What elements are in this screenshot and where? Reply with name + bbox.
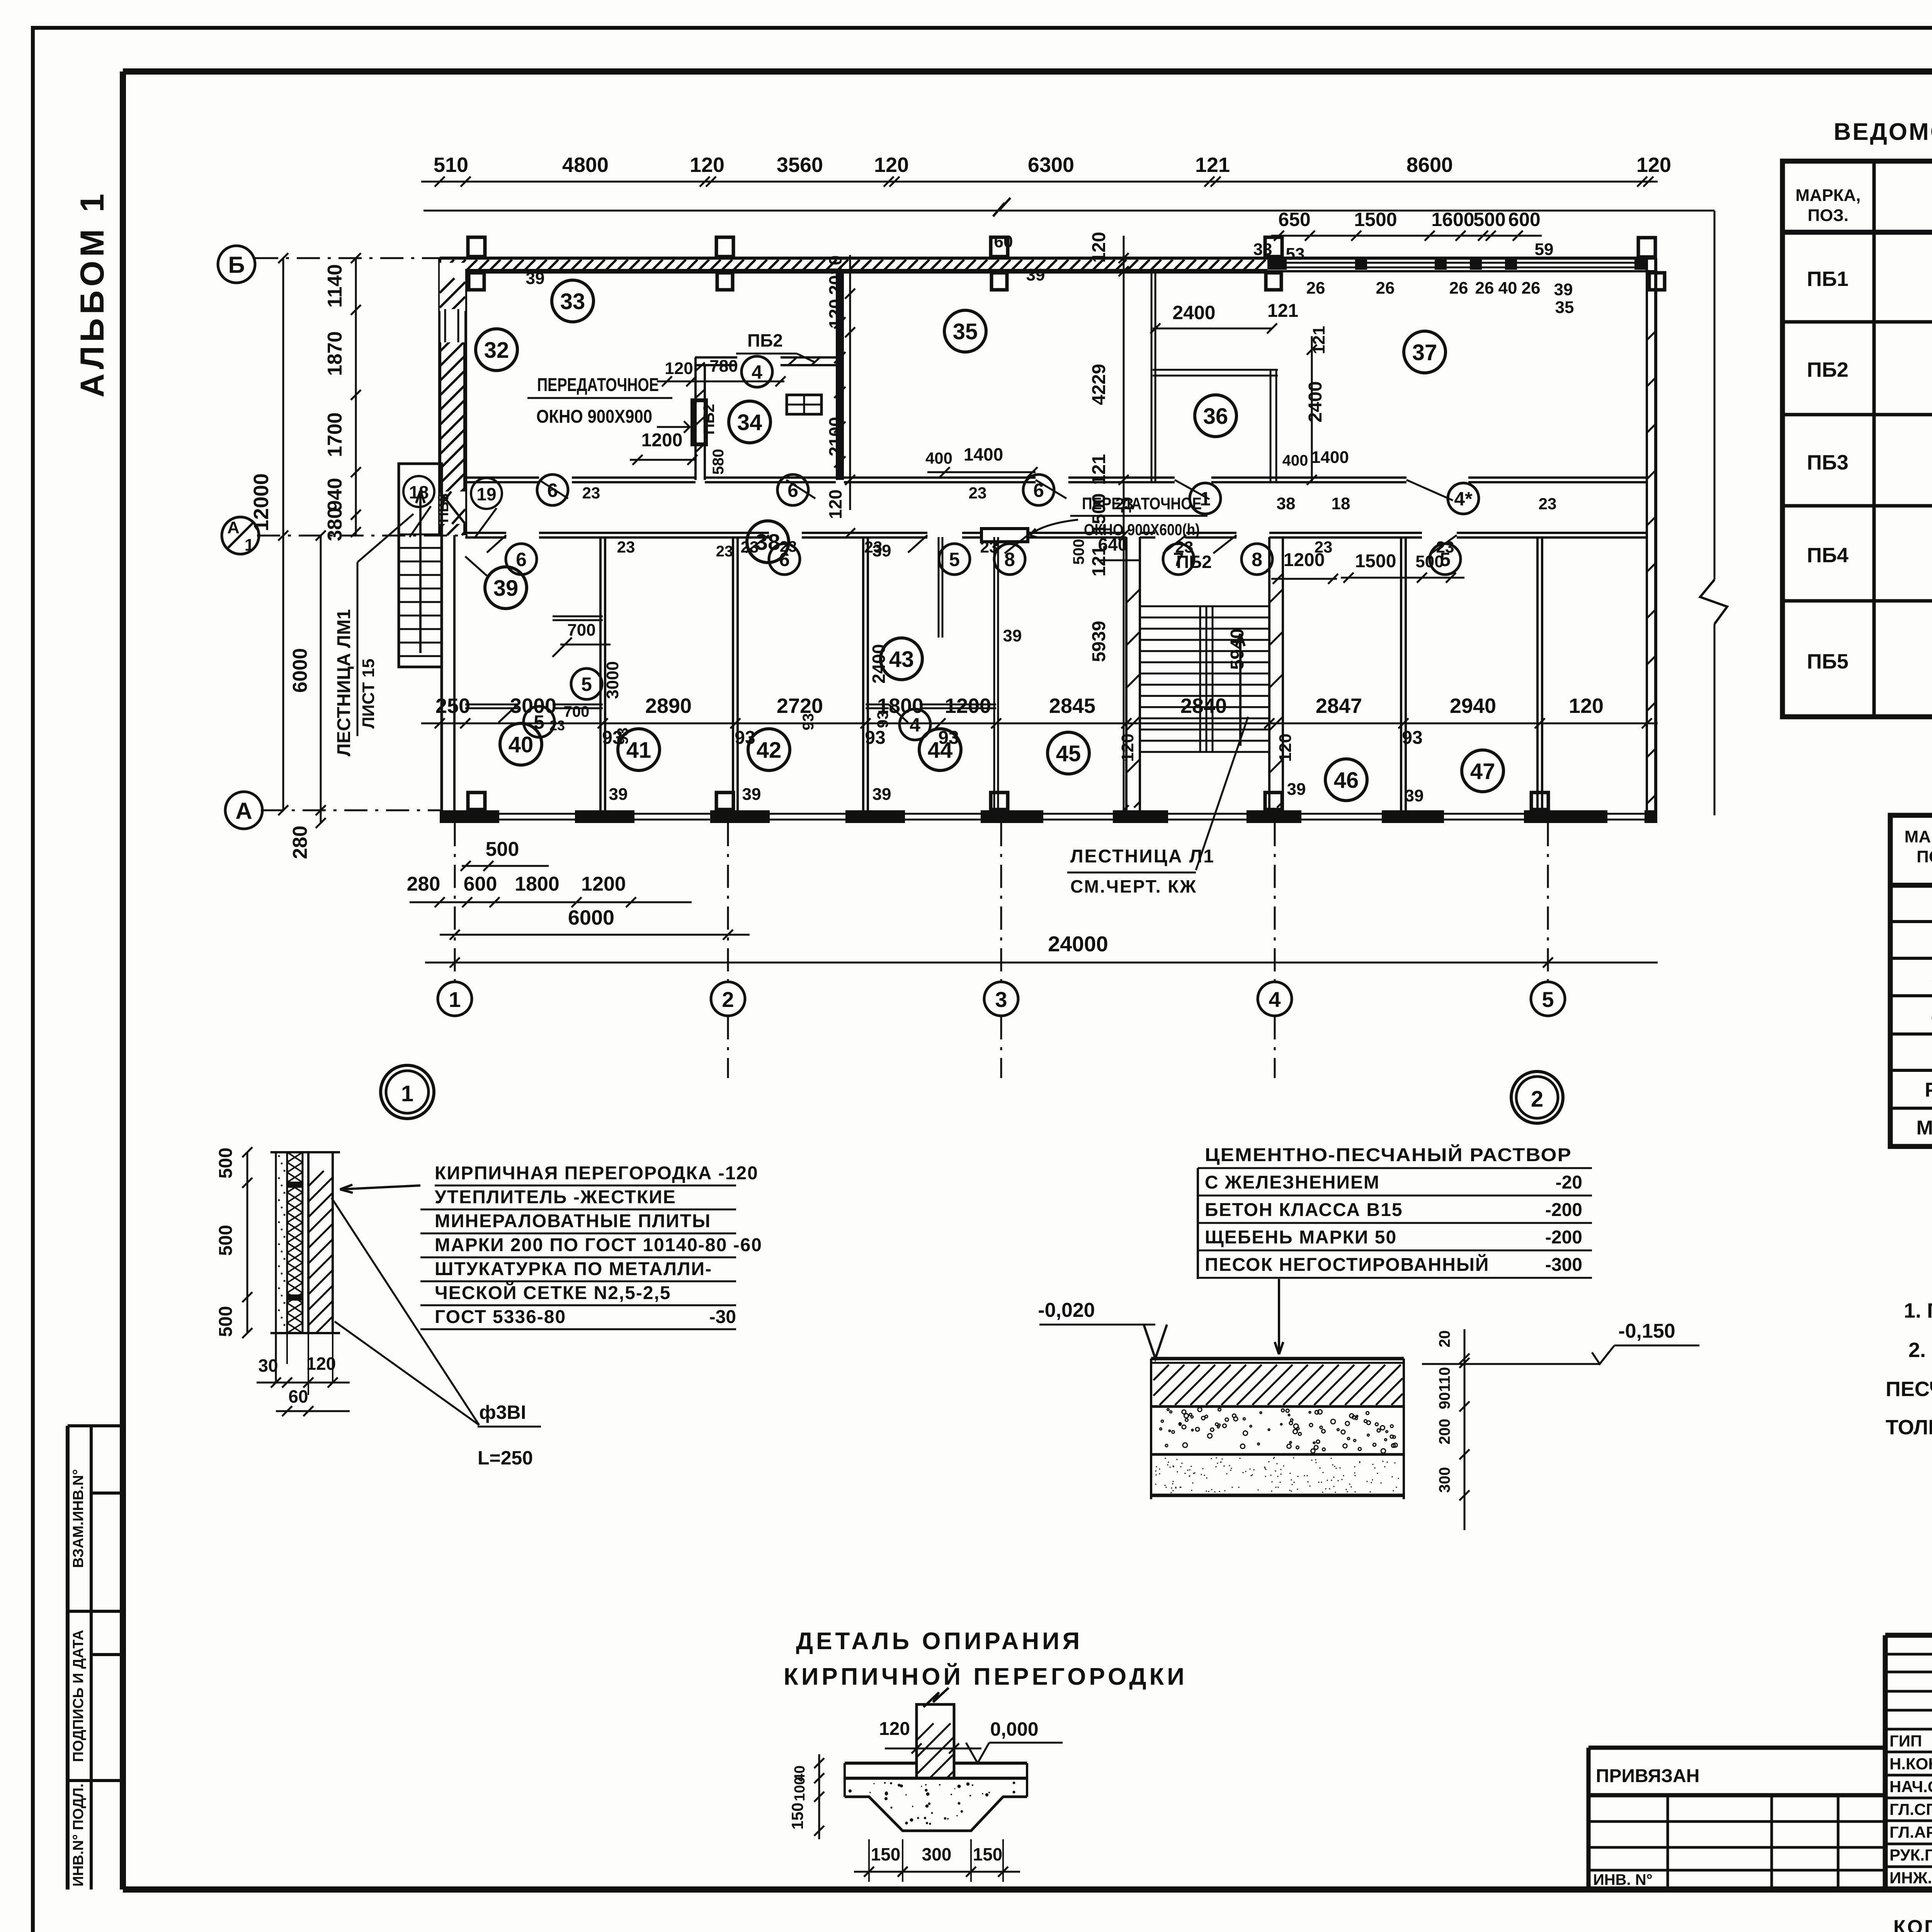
svg-text:400: 400 (925, 449, 952, 467)
svg-text:500: 500 (1473, 209, 1505, 230)
detail1 bottom dims (275, 1333, 277, 1383)
svg-text:БЕТОН КЛАССА В15: БЕТОН КЛАССА В15 (1205, 1200, 1403, 1220)
svg-text:С ЖЕЛЕЗНЕНИЕМ: С ЖЕЛЕЗНЕНИЕМ (1205, 1172, 1380, 1193)
svg-text:33: 33 (560, 289, 585, 314)
axis circle A (225, 792, 262, 829)
left exterior wall 510 (438, 258, 441, 535)
detail2 leader arrow (1278, 1279, 1280, 1354)
privyazan table (1588, 1746, 1885, 1750)
svg-text:18: 18 (1332, 494, 1350, 513)
svg-text:940: 940 (324, 478, 346, 512)
left wall window opening (440, 309, 464, 342)
svg-text:39: 39 (1405, 786, 1424, 805)
bottom dim chain 280-600-1800-1200 (410, 901, 692, 903)
svg-text:280: 280 (407, 873, 440, 895)
svg-text:35: 35 (953, 319, 978, 344)
svg-text:ВЗАМ.ИНВ.N°: ВЗАМ.ИНВ.N° (70, 1469, 87, 1568)
margin stamp strip (66, 1426, 70, 1889)
detail3 floor slab (845, 1762, 917, 1765)
svg-text:Н.КОНТР.: Н.КОНТР. (1889, 1755, 1932, 1773)
svg-text:ОКНО 900Х900: ОКНО 900Х900 (536, 406, 652, 427)
svg-text:ЩЕБЕНЬ МАРКИ 50: ЩЕБЕНЬ МАРКИ 50 (1205, 1227, 1397, 1248)
svg-text:42: 42 (757, 738, 782, 763)
svg-text:26: 26 (1522, 279, 1541, 298)
svg-text:300: 300 (922, 1844, 952, 1864)
svg-text:780: 780 (709, 357, 738, 376)
svg-text:23: 23 (582, 484, 600, 502)
axis grid dash-dot lines (454, 823, 456, 983)
staircase LM1 outside left (399, 464, 442, 667)
svg-text:120: 120 (825, 299, 845, 329)
room36 inner walls (1153, 369, 1278, 371)
svg-text:60: 60 (994, 232, 1013, 251)
thick partition between rooms 34 and 35 (836, 271, 844, 480)
svg-text:ПЕРЕДАТОЧНОЕ: ПЕРЕДАТОЧНОЕ (537, 375, 659, 395)
svg-text:33: 33 (1253, 240, 1272, 259)
svg-text:2400: 2400 (869, 644, 889, 684)
svg-text:150: 150 (973, 1844, 1003, 1864)
svg-text:ПБ5: ПБ5 (1807, 650, 1849, 673)
svg-text:ИНВ. N°: ИНВ. N° (1593, 1871, 1653, 1888)
svg-text:МАРКИ 200 ПО ГОСТ 10140-80 -: МАРКИ 200 ПО ГОСТ 10140-80 -60 (435, 1235, 762, 1255)
left vertical dimension chains (282, 258, 284, 810)
svg-text:23: 23 (1539, 495, 1557, 513)
svg-text:500: 500 (1070, 539, 1087, 565)
svg-text:120: 120 (665, 359, 693, 378)
partition wall section layers (275, 1152, 277, 1333)
svg-text:1: 1 (245, 536, 254, 554)
svg-text:120: 120 (1089, 232, 1109, 263)
top extension line (423, 210, 1714, 212)
svg-text:1200: 1200 (641, 430, 683, 451)
svg-text:120: 120 (690, 153, 724, 177)
svg-text:39: 39 (1026, 265, 1045, 284)
svg-text:3: 3 (995, 987, 1007, 1012)
door swings (539, 480, 568, 498)
svg-text:20: 20 (1436, 1330, 1453, 1348)
bottom dim 500 (462, 865, 549, 867)
svg-text:6: 6 (516, 549, 527, 570)
svg-text:МАРКА,: МАРКА, (1796, 186, 1861, 205)
svg-text:2890: 2890 (645, 694, 692, 718)
svg-text:36: 36 (1203, 404, 1228, 429)
svg-text:38: 38 (1277, 494, 1296, 513)
svg-text:6000: 6000 (289, 648, 311, 693)
svg-text:280: 280 (289, 826, 311, 859)
svg-text:ГОСТ 5336-80: ГОСТ 5336-80 (435, 1307, 566, 1327)
svg-text:-30: -30 (709, 1307, 736, 1327)
svg-text:ПБ8: ПБ8 (435, 493, 452, 523)
svg-text:1: 1 (401, 1081, 413, 1106)
svg-text:0,000: 0,000 (990, 1718, 1038, 1740)
drawing frame (123, 68, 1932, 75)
svg-text:ПБ1: ПБ1 (1807, 267, 1849, 291)
svg-text:2400: 2400 (1305, 381, 1326, 423)
svg-text:2100: 2100 (825, 417, 845, 456)
svg-text:120: 120 (306, 1354, 336, 1374)
svg-text:38: 38 (755, 530, 781, 555)
top exterior wall at axis B (440, 257, 1656, 260)
svg-text:400: 400 (1282, 452, 1308, 469)
svg-text:2: 2 (722, 987, 734, 1012)
svg-text:4: 4 (752, 361, 762, 383)
svg-text:1200: 1200 (581, 873, 626, 895)
svg-text:53: 53 (1286, 245, 1305, 264)
svg-text:37: 37 (1412, 340, 1437, 365)
svg-text:ГИП: ГИП (1889, 1732, 1922, 1750)
svg-text:КИРПИЧНОЙ ПЕРЕГОРОДКИ: КИРПИЧНОЙ ПЕРЕГОРОДКИ (784, 1663, 1187, 1690)
svg-text:700: 700 (564, 703, 590, 720)
detail circle 1 (381, 1065, 434, 1119)
svg-text:ШТУКАТУРКА ПО МЕТАЛЛИ-: ШТУКАТУРКА ПО МЕТАЛЛИ- (435, 1259, 712, 1279)
svg-text:5939: 5939 (1089, 621, 1109, 662)
svg-text:ГЛ.СПЕЦ.: ГЛ.СПЕЦ. (1889, 1800, 1932, 1818)
svg-text:ПОДПИСЬ И ДАТА: ПОДПИСЬ И ДАТА (70, 1630, 87, 1762)
svg-text:600: 600 (464, 873, 497, 895)
svg-text:ПЕСОК НЕГОСТИРОВАННЫЙ: ПЕСОК НЕГОСТИРОВАННЫЙ (1205, 1254, 1489, 1275)
svg-text:1: 1 (449, 987, 461, 1012)
svg-text:120: 120 (1118, 733, 1137, 762)
top wall pilaster right (1638, 238, 1655, 257)
svg-text:2940: 2940 (1450, 694, 1496, 718)
svg-text:ЧЕСКОЙ СЕТКЕ N2,5-2,5: ЧЕСКОЙ СЕТКЕ N2,5-2,5 (435, 1282, 671, 1303)
detail3 left dims (818, 1754, 820, 1839)
corridor upper partition wall (465, 476, 539, 479)
room36 left wall (1151, 271, 1153, 482)
svg-text:39: 39 (609, 785, 628, 804)
svg-text:2400: 2400 (1172, 302, 1215, 323)
svg-text:ПЕСЧАНЫМ РАСТВОРОМ ПО МЕТАЛ: ПЕСЧАНЫМ РАСТВОРОМ ПО МЕТАЛЛИЧЕСКОЙ СЕТК… (1886, 1377, 1932, 1401)
svg-text:580: 580 (710, 449, 727, 475)
svg-text:2010: 2010 (825, 255, 845, 295)
concrete dots layer (1232, 1414, 1236, 1417)
svg-text:КОПИРОВАЛ БАБИНА: КОПИРОВАЛ БАБИНА (1893, 1916, 1932, 1932)
svg-text:23: 23 (780, 538, 797, 555)
svg-text:ПБ2: ПБ2 (1176, 552, 1212, 572)
svg-text:ПБ4: ПБ4 (1807, 544, 1849, 567)
svg-text:2845: 2845 (1049, 694, 1095, 718)
svg-text:30: 30 (258, 1355, 278, 1376)
svg-text:26: 26 (1475, 279, 1494, 298)
top-right window dimension chain (1271, 235, 1542, 237)
svg-text:1200: 1200 (1284, 550, 1325, 570)
svg-text:35: 35 (1555, 298, 1574, 317)
svg-text:-300: -300 (1545, 1255, 1582, 1275)
right exterior wall (1646, 258, 1648, 823)
svg-text:ПБ2: ПБ2 (701, 404, 718, 435)
svg-text:ПБ2: ПБ2 (1807, 358, 1849, 381)
room number circles (476, 329, 517, 371)
svg-text:8: 8 (1004, 549, 1015, 570)
svg-text:121: 121 (1089, 454, 1109, 485)
svg-text:500: 500 (216, 1225, 236, 1256)
svg-text:1. ПЕРЕДАТОЧНЫЕ ОКНА 900Х600: 1. ПЕРЕДАТОЧНЫЕ ОКНА 900Х600 И 900Х900 В… (1904, 1299, 1932, 1322)
svg-text:ПРИВЯЗАН: ПРИВЯЗАН (1596, 1766, 1699, 1786)
svg-text:500: 500 (216, 1148, 236, 1179)
svg-text:ЛИСТ 15: ЛИСТ 15 (359, 658, 378, 728)
svg-text:650: 650 (1278, 209, 1310, 230)
ventilation shaft symbol room34 (787, 395, 821, 414)
svg-text:380: 380 (324, 508, 346, 541)
svg-text:93: 93 (800, 713, 817, 731)
svg-text:600: 600 (1508, 209, 1540, 230)
svg-text:1400: 1400 (1311, 448, 1349, 467)
top dimension chain (421, 181, 1658, 183)
svg-text:4: 4 (910, 714, 920, 736)
svg-text:ф3ВI: ф3ВI (479, 1401, 526, 1423)
svg-text:ЦЕМЕНТНО-ПЕСЧАНЫЙ РАСТВОР: ЦЕМЕНТНО-ПЕСЧАНЫЙ РАСТВОР (1205, 1144, 1572, 1165)
svg-text:500: 500 (1415, 552, 1444, 571)
detail3 foundation trapezoid (845, 1797, 1027, 1831)
circles 18 19 (403, 476, 434, 507)
svg-text:250: 250 (435, 694, 470, 718)
left wall lower thin part (440, 535, 443, 810)
svg-text:4*: 4* (1454, 488, 1473, 510)
svg-text:1500: 1500 (1355, 551, 1396, 571)
svg-text:1800: 1800 (515, 873, 560, 895)
svg-text:93: 93 (874, 711, 891, 728)
door number circles (742, 356, 772, 387)
bottom dim 24000 (425, 962, 1658, 964)
svg-text:43: 43 (889, 647, 914, 672)
svg-text:6: 6 (547, 480, 558, 501)
svg-text:МАРКА,: МАРКА, (1905, 827, 1932, 846)
svg-text:L=250: L=250 (478, 1447, 533, 1469)
svg-text:ПБ2: ПБ2 (747, 330, 783, 350)
svg-text:120: 120 (874, 153, 909, 177)
svg-text:КИРПИЧНАЯ ПЕРЕГОРОДКА -120: КИРПИЧНАЯ ПЕРЕГОРОДКА -120 (435, 1163, 759, 1184)
svg-text:5: 5 (581, 673, 592, 695)
staircase L1 treads (1140, 605, 1269, 607)
svg-text:39: 39 (872, 541, 891, 560)
svg-text:34: 34 (737, 410, 762, 435)
svg-text:640: 640 (1098, 534, 1128, 554)
svg-text:1140: 1140 (324, 264, 346, 308)
svg-text:23: 23 (980, 538, 998, 556)
svg-text:39: 39 (1554, 280, 1573, 299)
svg-text:А: А (235, 798, 252, 824)
svg-text:120: 120 (825, 490, 845, 519)
partition room44/45 partial (993, 537, 995, 810)
svg-text:3560: 3560 (777, 153, 823, 177)
svg-text:24000: 24000 (1048, 932, 1108, 956)
svg-text:26: 26 (1376, 279, 1395, 298)
svg-text:39: 39 (742, 785, 761, 804)
axis circle B (218, 246, 255, 283)
detail1 left dims 500x3 (247, 1152, 248, 1333)
svg-text:УТЕПЛИТЕЛЬ -ЖЕСТКИЕ: УТЕПЛИТЕЛЬ -ЖЕСТКИЕ (435, 1187, 676, 1207)
svg-text:НАЧ.ОТД.: НАЧ.ОТД. (1889, 1777, 1932, 1796)
svg-text:1200: 1200 (945, 694, 991, 718)
partition room33/34 horizontal (695, 356, 737, 359)
svg-text:ГЛ.АРХ.: ГЛ.АРХ. (1889, 1823, 1932, 1841)
corridor lower partition wall (465, 532, 506, 534)
detail1 phi3BI leader (332, 1198, 479, 1425)
svg-text:2: 2 (1531, 1087, 1543, 1112)
svg-text:23: 23 (969, 484, 987, 502)
svg-text:2847: 2847 (1316, 694, 1362, 718)
svg-text:121: 121 (1195, 153, 1230, 177)
svg-text:ПБ3: ПБ3 (1807, 451, 1849, 474)
svg-text:700: 700 (567, 621, 595, 639)
room36 dims (1153, 328, 1272, 330)
svg-text:121: 121 (1267, 301, 1298, 321)
svg-text:-200: -200 (1545, 1200, 1582, 1220)
svg-text:19: 19 (476, 484, 496, 504)
svg-text:-200: -200 (1545, 1227, 1582, 1248)
svg-text:26: 26 (1306, 279, 1325, 298)
svg-text:4800: 4800 (562, 153, 609, 177)
svg-text:110: 110 (1436, 1367, 1453, 1392)
svg-text:ПОЗ.: ПОЗ. (1808, 206, 1849, 225)
right margin extension line with break (1714, 211, 1716, 580)
svg-text:5: 5 (1542, 987, 1554, 1012)
svg-text:46: 46 (1334, 768, 1359, 793)
svg-text:8: 8 (1252, 549, 1262, 570)
svg-text:ИНВ.N° ПОДЛ.: ИНВ.N° ПОДЛ. (70, 1784, 87, 1887)
title block staff table (1883, 1635, 1888, 1889)
svg-text:-0,020: -0,020 (1038, 1299, 1095, 1321)
svg-text:Р1: Р1 (1925, 1079, 1932, 1101)
bottom wall pilasters (468, 793, 485, 810)
PB8 lintel block (440, 492, 465, 524)
svg-text:МР1: МР1 (1917, 1117, 1932, 1139)
svg-text:А: А (227, 518, 240, 537)
stairwell walls (1126, 537, 1140, 810)
svg-text:4: 4 (1269, 987, 1281, 1012)
svg-text:93: 93 (1402, 728, 1422, 748)
svg-text:6: 6 (1033, 480, 1044, 501)
svg-text:ИНЖ.: ИНЖ. (1889, 1869, 1932, 1887)
room43 inner wall (866, 704, 889, 706)
svg-text:39: 39 (1287, 780, 1306, 799)
svg-text:500: 500 (486, 838, 519, 861)
floor slab layers (1151, 1357, 1404, 1361)
svg-text:5940: 5940 (1227, 629, 1248, 670)
transfer window 900x900 box (692, 400, 706, 444)
svg-text:39: 39 (526, 269, 545, 288)
svg-text:1600: 1600 (1431, 209, 1474, 230)
svg-text:150: 150 (788, 1803, 806, 1830)
partition room33/34 vertical (694, 357, 697, 480)
svg-text:23: 23 (741, 538, 759, 556)
bottom axis circles 1-5 (438, 982, 472, 1016)
svg-text:ВЕДОМОСТЬ ПЕРЕМЫЧЕК: ВЕДОМОСТЬ ПЕРЕМЫЧЕК (1833, 119, 1932, 145)
svg-text:1700: 1700 (324, 412, 346, 457)
svg-text:39: 39 (493, 576, 519, 601)
svg-text:39: 39 (1003, 626, 1022, 645)
svg-text:93: 93 (614, 728, 631, 745)
detail circle 2 (1511, 1071, 1563, 1123)
svg-text:90: 90 (1436, 1392, 1453, 1410)
svg-text:ЛЕСТНИЦА ЛМ1: ЛЕСТНИЦА ЛМ1 (334, 609, 354, 756)
svg-text:1500: 1500 (1354, 209, 1397, 230)
room width dimension row (421, 723, 1658, 724)
staircase L1 up arrow (1239, 634, 1242, 746)
svg-text:СМ.ЧЕРТ. КЖ: СМ.ЧЕРТ. КЖ (1070, 876, 1197, 896)
svg-text:300: 300 (1436, 1467, 1453, 1493)
detail3 brick partition hatched (917, 1704, 954, 1778)
svg-text:200: 200 (1436, 1419, 1453, 1445)
svg-text:39: 39 (872, 785, 891, 804)
axis circle A/1 (222, 517, 259, 554)
svg-text:МИНЕРАЛОВАТНЫЕ ПЛИТЫ: МИНЕРАЛОВАТНЫЕ ПЛИТЫ (435, 1211, 711, 1231)
svg-text:ДЕТАЛЬ ОПИРАНИЯ: ДЕТАЛЬ ОПИРАНИЯ (796, 1628, 1083, 1655)
svg-text:ПОЗ.: ПОЗ. (1917, 847, 1932, 866)
svg-text:ТОЛЩИНОЙ 30ММ.: ТОЛЩИНОЙ 30ММ. (1886, 1415, 1932, 1439)
bottom exterior wall at axis A with windows (440, 810, 1656, 823)
svg-text:1400: 1400 (964, 444, 1003, 464)
top wall pilasters (468, 237, 485, 257)
svg-text:40: 40 (1498, 279, 1517, 298)
svg-text:РУК.ГР.: РУК.ГР. (1889, 1846, 1932, 1864)
svg-text:32: 32 (484, 338, 509, 363)
svg-text:45: 45 (1056, 741, 1081, 766)
svg-text:120: 120 (1276, 733, 1295, 762)
svg-text:6: 6 (787, 480, 798, 501)
svg-text:60: 60 (288, 1386, 308, 1406)
svg-text:3000: 3000 (510, 694, 556, 718)
svg-text:5: 5 (534, 711, 544, 733)
svg-text:26: 26 (1449, 279, 1468, 298)
svg-text:ЛЕСТНИЦА Л1: ЛЕСТНИЦА Л1 (1070, 846, 1215, 867)
svg-text:5: 5 (949, 549, 960, 570)
svg-text:2. МЕТАЛЛИЧЕСКИЕ БАЛКИ ПЕРЕК: 2. МЕТАЛЛИЧЕСКИЕ БАЛКИ ПЕРЕКРЫТИЯ ОШТУКА… (1908, 1338, 1932, 1362)
svg-text:2840: 2840 (1180, 694, 1227, 718)
detail3 bottom dims (854, 1871, 1020, 1873)
svg-text:-0,150: -0,150 (1618, 1320, 1675, 1342)
bottom dim 6000 (440, 934, 750, 936)
svg-text:120: 120 (879, 1719, 910, 1739)
svg-text:1870: 1870 (324, 331, 346, 376)
svg-text:100: 100 (792, 1777, 808, 1801)
svg-text:-20: -20 (1556, 1172, 1582, 1193)
svg-text:120: 120 (1569, 694, 1604, 718)
svg-text:4229: 4229 (1089, 364, 1109, 405)
svg-text:Б: Б (228, 252, 245, 278)
svg-text:6000: 6000 (568, 906, 614, 929)
svg-text:510: 510 (434, 153, 468, 177)
svg-text:120: 120 (1636, 153, 1671, 177)
svg-text:40: 40 (509, 732, 534, 757)
lower band partitions (599, 537, 602, 810)
svg-text:23: 23 (716, 543, 733, 560)
svg-text:44: 44 (928, 738, 953, 763)
svg-text:23: 23 (549, 718, 565, 733)
svg-text:8600: 8600 (1406, 153, 1453, 177)
svg-text:3000: 3000 (603, 661, 622, 699)
svg-text:6300: 6300 (1028, 153, 1074, 177)
svg-text:18: 18 (409, 482, 429, 502)
svg-text:АЛЬБОМ 1: АЛЬБОМ 1 (74, 190, 111, 397)
svg-text:93: 93 (865, 728, 885, 748)
svg-text:47: 47 (1470, 759, 1495, 784)
detail2 right dims (1464, 1329, 1466, 1530)
svg-text:150: 150 (871, 1844, 901, 1864)
room39 small partitions (553, 616, 603, 617)
svg-text:500: 500 (216, 1306, 236, 1337)
svg-text:23: 23 (617, 538, 635, 556)
svg-text:59: 59 (1535, 240, 1554, 259)
transfer window 900x600 on corridor wall (981, 529, 1028, 542)
svg-text:1500: 1500 (1089, 493, 1109, 535)
